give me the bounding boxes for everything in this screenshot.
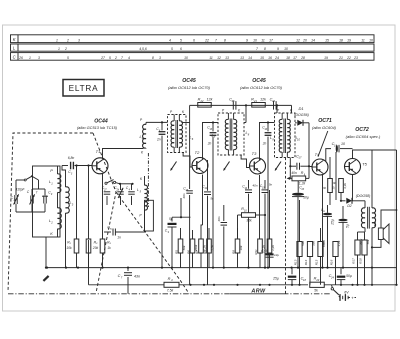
wire T1 collector: [103, 149, 144, 160]
wire D1 to T4 base: [309, 123, 312, 167]
svg-text:34: 34: [272, 99, 275, 103]
speaker: [378, 228, 383, 240]
svg-text:1,2k: 1,2k: [271, 245, 275, 251]
osc core dashed: [147, 153, 149, 207]
svg-text:19: 19: [347, 39, 351, 43]
trimmer C9left: [43, 196, 45, 204]
svg-text:5n: 5n: [269, 182, 273, 186]
svg-text:2n: 2n: [262, 142, 267, 146]
svg-text:13: 13: [209, 128, 212, 131]
svg-text:18: 18: [303, 278, 306, 282]
wire mid y205: [323, 204, 328, 206]
wire osc fb: [88, 240, 90, 285]
svg-text:2b: 2b: [115, 188, 119, 191]
cap C18 25u: [291, 268, 293, 275]
svg-text:5: 5: [140, 190, 142, 193]
svg-text:9: 9: [246, 39, 248, 43]
svg-text:P: P: [170, 110, 173, 114]
svg-text:2: 2: [66, 39, 69, 43]
svg-text:9: 9: [277, 47, 279, 51]
wire x336: [335, 152, 337, 200]
svg-text:4: 4: [129, 188, 131, 191]
svg-text:R16: R16: [329, 259, 333, 265]
svg-text:OC71: OC71: [318, 118, 332, 124]
svg-text:6: 6: [180, 47, 182, 51]
wire T5 emitter: [355, 174, 357, 201]
core adjust arrow 1: [171, 162, 177, 171]
svg-text:7,5k: 7,5k: [167, 289, 174, 293]
output bias resistors: [297, 242, 302, 257]
svg-text:5: 5: [171, 47, 173, 51]
ELTRA logo box: [63, 80, 104, 97]
svg-text:22: 22: [204, 39, 209, 43]
svg-text:OC72: OC72: [355, 127, 369, 133]
capacitor C13 2n: [212, 123, 214, 132]
svg-text:40n: 40n: [182, 193, 186, 198]
svg-text:11: 11: [209, 56, 213, 60]
svg-text:3: 3: [71, 172, 73, 175]
supply rail ARW right: [179, 284, 308, 286]
rail to switch: [324, 284, 396, 286]
svg-text:9: 9: [51, 193, 53, 196]
svg-text:9: 9: [168, 231, 170, 234]
svg-text:2: 2: [50, 220, 53, 224]
svg-text:T5: T5: [362, 162, 367, 167]
tuning gang dashed link: [116, 192, 189, 294]
svg-text:C: C: [13, 54, 17, 59]
svg-text:R18: R18: [358, 258, 362, 264]
wire T5 top right: [353, 150, 397, 159]
svg-text:35k: 35k: [246, 219, 252, 223]
svg-text:24: 24: [274, 56, 279, 60]
transistor T4: [312, 159, 328, 175]
capacitor C35: [232, 101, 234, 110]
svg-text:390k: 390k: [359, 238, 363, 245]
leader OC71: [318, 131, 328, 157]
svg-text:10: 10: [264, 128, 267, 131]
wire T2 emitter: [202, 175, 204, 226]
wire L1-L2 inner: [57, 166, 59, 174]
capacitor C14 40n: [245, 189, 252, 191]
resistor R16 2k2: [340, 158, 342, 171]
wire right edge down: [396, 150, 398, 285]
svg-text:6: 6: [192, 137, 194, 141]
svg-text:10: 10: [284, 47, 288, 51]
wire L3: [62, 166, 66, 188]
svg-text:10: 10: [253, 39, 257, 43]
svg-text:18: 18: [286, 56, 290, 60]
svg-text:10: 10: [184, 56, 188, 60]
svg-text:13: 13: [225, 56, 229, 60]
ground chassis: [43, 276, 48, 281]
svg-text:K: K: [141, 150, 144, 154]
svg-text:P: P: [140, 118, 143, 122]
tuning box: [33, 166, 61, 237]
cap C21 25u: [323, 213, 332, 216]
svg-text:K: K: [50, 232, 53, 236]
svg-text:12µ: 12µ: [274, 253, 279, 257]
capacitor C8 2n: [161, 122, 163, 130]
svg-text:4: 4: [171, 278, 173, 282]
svg-text:16: 16: [369, 39, 373, 43]
wire rail right drop: [291, 105, 293, 113]
svg-text:5: 5: [180, 39, 182, 43]
capacitor C34: [273, 101, 275, 110]
supply rail ARW: [89, 284, 165, 286]
wire T4 base res: [311, 166, 313, 169]
svg-text:P: P: [277, 109, 280, 113]
svg-text:4,5,6: 4,5,6: [139, 47, 147, 51]
cap C7 43n: [127, 268, 129, 271]
svg-text:28: 28: [300, 56, 305, 60]
band switch contact: [24, 179, 26, 181]
switch contact rows K L C: [11, 35, 375, 43]
ARW wire: [230, 293, 283, 295]
svg-text:R8: R8: [203, 250, 207, 254]
svg-text:P: P: [139, 214, 142, 218]
wire T5 collector: [352, 175, 354, 201]
svg-text:6: 6: [193, 39, 195, 43]
svg-text:R9: R9: [231, 250, 235, 254]
svg-text:7: 7: [121, 275, 123, 279]
svg-text:27: 27: [100, 56, 105, 60]
capacitor C16 40n: [189, 123, 191, 190]
svg-text:7: 7: [121, 56, 123, 60]
svg-text:R12: R12: [263, 249, 267, 255]
svg-text:R₂: R₂: [94, 241, 98, 245]
svg-text:23: 23: [315, 278, 319, 282]
wire T5 base: [344, 149, 347, 167]
svg-text:1k: 1k: [107, 246, 111, 250]
wire R17R18 tops: [357, 232, 359, 240]
osc coil box: [145, 200, 154, 231]
wire T4 collector: [326, 149, 331, 162]
svg-text:4: 4: [169, 39, 171, 43]
svg-text:410pF: 410pF: [15, 188, 25, 192]
svg-text:12: 12: [296, 39, 300, 43]
wire R5R6 tops: [180, 228, 182, 239]
svg-text:35: 35: [232, 99, 235, 103]
node base T1: [75, 164, 77, 166]
coil L3: [66, 187, 70, 213]
coil L4: [143, 124, 146, 148]
battery 6V: [339, 296, 340, 298]
svg-text:12: 12: [217, 56, 221, 60]
svg-text:6,8n: 6,8n: [68, 156, 75, 160]
svg-text:C: C: [27, 190, 30, 194]
svg-text:50µ: 50µ: [346, 274, 352, 278]
svg-text:16: 16: [268, 56, 272, 60]
svg-text:1,2k: 1,2k: [337, 240, 341, 246]
svg-text:1: 1: [58, 47, 60, 51]
svg-text:8: 8: [264, 47, 266, 51]
resistor R10b: [329, 157, 331, 179]
svg-text:56k: 56k: [373, 221, 377, 226]
svg-text:2n: 2n: [156, 138, 161, 142]
svg-text:27: 27: [103, 188, 107, 191]
svg-text:21: 21: [338, 56, 343, 60]
core adjust arrow 3: [275, 162, 281, 171]
antenna assembly dashed outline: [8, 133, 93, 292]
wire rail left drop: [189, 105, 191, 122]
coil L1: [58, 174, 61, 193]
svg-text:13: 13: [240, 56, 244, 60]
svg-text:6V: 6V: [344, 290, 349, 294]
osc top wire: [120, 183, 133, 185]
svg-text:23: 23: [353, 56, 358, 60]
svg-text:3: 3: [78, 39, 80, 43]
svg-text:K: K: [13, 37, 16, 42]
svg-text:P: P: [222, 109, 225, 113]
svg-text:17: 17: [299, 156, 302, 160]
svg-text:R6: R6: [186, 250, 190, 254]
svg-text:10: 10: [341, 142, 345, 146]
wires detector: [289, 158, 291, 179]
svg-text:T1: T1: [96, 149, 101, 154]
svg-text:12k: 12k: [207, 97, 213, 101]
svg-text:50k: 50k: [182, 245, 186, 250]
svg-text:(albo GC604): (albo GC604): [312, 125, 337, 130]
svg-text:8: 8: [248, 132, 250, 136]
svg-text:K: K: [182, 110, 185, 114]
svg-text:20: 20: [302, 39, 307, 43]
svg-text:5k: 5k: [314, 289, 318, 293]
capacitor C11 5n: [207, 160, 209, 191]
resistor R21 12k: [252, 103, 266, 108]
svg-text:23: 23: [300, 188, 304, 191]
svg-text:K: K: [290, 109, 293, 113]
band switch osc: [105, 182, 107, 184]
svg-text:7: 7: [256, 47, 258, 51]
svg-text:25µ: 25µ: [272, 277, 279, 281]
svg-text:R₁: R₁: [67, 241, 71, 245]
variable capacitor C2a: [14, 195, 16, 204]
svg-text:17: 17: [269, 39, 273, 43]
wire base drop: [88, 166, 90, 240]
IF transformer 2: [218, 113, 244, 155]
resistor R10 35k horizontal: [238, 214, 242, 216]
svg-text:T4: T4: [315, 152, 320, 157]
svg-text:26: 26: [18, 56, 23, 60]
svg-text:R₃: R₃: [107, 241, 111, 245]
svg-text:56k: 56k: [312, 241, 316, 246]
capacitor C3 6.8n: [62, 165, 68, 167]
wire IF1 K up: [181, 110, 190, 115]
svg-text:R11: R11: [254, 249, 258, 255]
svg-text:7: 7: [215, 39, 217, 43]
wire box bottom: [45, 237, 47, 268]
transistor T2: [192, 158, 208, 174]
svg-text:R14: R14: [304, 259, 308, 265]
power switch: [331, 288, 333, 290]
resistor R4 7k5: [164, 282, 179, 287]
svg-text:ELTRA: ELTRA: [69, 84, 99, 93]
capacitor C10 2n: [267, 123, 269, 132]
svg-text:10: 10: [244, 210, 247, 213]
svg-text:19: 19: [324, 56, 328, 60]
svg-text:R15: R15: [314, 259, 318, 265]
svg-text:3,3k: 3,3k: [343, 183, 347, 189]
node rail: [245, 104, 247, 106]
capacitor C12 40n: [223, 205, 225, 221]
svg-text:2a: 2a: [13, 197, 17, 201]
svg-text:P: P: [50, 169, 53, 173]
svg-text:T3: T3: [252, 151, 257, 156]
svg-text:(DOG58): (DOG58): [356, 194, 371, 198]
svg-text:20k: 20k: [92, 246, 99, 250]
svg-text:T2: T2: [195, 150, 200, 155]
svg-text:56k: 56k: [366, 239, 370, 244]
wire R11R12 tops: [259, 225, 261, 239]
chassis rail right part: [292, 267, 397, 269]
svg-text:8: 8: [224, 39, 226, 43]
coil L2: [58, 208, 62, 229]
wire emitter join: [172, 216, 191, 218]
svg-text:K: K: [140, 177, 143, 181]
svg-text:50µ: 50µ: [303, 196, 309, 200]
svg-text:2n: 2n: [207, 142, 212, 146]
resistor R23: [310, 282, 325, 287]
svg-text:R7: R7: [195, 250, 199, 254]
transistor T5: [345, 159, 361, 175]
svg-text:14: 14: [244, 187, 247, 190]
capacitor C15b 5n: [262, 189, 269, 191]
cap C9 5u: [171, 217, 173, 221]
svg-text:14: 14: [248, 56, 252, 60]
svg-text:2: 2: [64, 47, 67, 51]
svg-text:+: +: [351, 296, 354, 301]
svg-text:(albo OC612 lub OC70): (albo OC612 lub OC70): [240, 85, 283, 90]
svg-text:5: 5: [110, 228, 112, 231]
wire IF1 pri bottom: [161, 153, 170, 158]
svg-text:43n: 43n: [134, 275, 140, 279]
transistor T1: [92, 158, 108, 174]
svg-text:K: K: [238, 109, 241, 113]
cap C17: [290, 165, 296, 167]
svg-text:R13: R13: [293, 259, 297, 265]
resistor R9 horizontal: [292, 176, 306, 181]
svg-text:22: 22: [200, 99, 204, 103]
svg-text:18: 18: [339, 39, 343, 43]
wire R16: [340, 171, 342, 179]
cap C27: [106, 184, 108, 190]
svg-text:(albo GC604 spec.): (albo GC604 spec.): [346, 134, 381, 139]
wires tuning caps: [15, 180, 17, 195]
top rail: [190, 104, 292, 106]
svg-text:4: 4: [128, 56, 130, 60]
osc coil L5: [145, 185, 148, 210]
bias resistors row: [178, 239, 183, 253]
svg-text:OC45: OC45: [182, 78, 196, 84]
svg-text:1: 1: [51, 181, 53, 185]
svg-text:(albo OC612 lub OC70): (albo OC612 lub OC70): [168, 85, 211, 90]
svg-text:(albo GC513 lub TC15): (albo GC513 lub TC15): [77, 125, 118, 130]
svg-text:1,2k: 1,2k: [203, 245, 207, 251]
transistor T3: [250, 158, 266, 174]
wire R13 top: [299, 200, 301, 242]
svg-text:40n: 40n: [217, 216, 221, 221]
wire T3 collector: [260, 123, 275, 161]
svg-text:D1: D1: [298, 106, 303, 111]
svg-text:R5: R5: [174, 250, 178, 254]
cap C22 50u: [338, 219, 347, 222]
svg-text:OC45: OC45: [252, 78, 266, 84]
svg-text:5: 5: [109, 56, 111, 60]
svg-text:3: 3: [38, 56, 40, 60]
trim cap C4: [131, 184, 133, 190]
chassis rail: [47, 267, 292, 269]
svg-text:10k: 10k: [66, 246, 72, 250]
svg-text:T: T: [36, 191, 39, 195]
svg-text:40n: 40n: [252, 183, 257, 187]
svg-text:1: 1: [29, 56, 31, 60]
svg-text:22: 22: [346, 56, 351, 60]
wire R14 top: [309, 167, 311, 242]
wire IF1 sec to T2: [183, 153, 192, 168]
svg-text:OC44: OC44: [94, 119, 108, 125]
svg-text:3: 3: [72, 202, 74, 206]
svg-text:11: 11: [261, 39, 265, 43]
diode D2: [341, 200, 346, 202]
rail dots: [189, 284, 191, 286]
svg-text:9: 9: [272, 137, 274, 141]
svg-text:15: 15: [325, 39, 329, 43]
svg-text:5: 5: [67, 56, 69, 60]
svg-text:12k: 12k: [260, 97, 266, 101]
wire rail drop2: [245, 105, 247, 122]
wire L4 top to IF1: [146, 121, 168, 123]
resistors R1 R2 R3: [74, 239, 79, 253]
svg-text:24: 24: [330, 276, 334, 280]
svg-text:1,3k: 1,3k: [211, 245, 215, 251]
trimmer Ct: [30, 196, 32, 204]
svg-text:40n: 40n: [291, 171, 297, 175]
svg-text:8: 8: [152, 56, 154, 60]
wire IF2 sec to T3: [241, 155, 249, 168]
wire T4 emitter: [322, 175, 324, 268]
osc bottom wire: [107, 204, 146, 206]
svg-text:10: 10: [297, 137, 300, 141]
svg-text:21: 21: [253, 99, 257, 103]
svg-text:R: R: [323, 186, 327, 189]
IF transformer 1: [168, 115, 187, 153]
svg-text:(DOG56): (DOG56): [294, 113, 309, 117]
diode D1: [295, 122, 297, 124]
cap C17b 12u: [266, 253, 274, 255]
core adjust arrow 2: [224, 162, 230, 171]
svg-text:L: L: [13, 45, 16, 50]
svg-text:59k: 59k: [301, 241, 305, 246]
svg-text:6860: 6860: [322, 240, 326, 247]
svg-text:1n: 1n: [117, 236, 121, 240]
output transformer Tr: [364, 201, 366, 208]
wire T1 emitter: [102, 174, 104, 239]
var cap C2b: [120, 184, 122, 190]
svg-text:1: 1: [56, 39, 58, 43]
dashed detector boundary: [285, 158, 287, 294]
svg-text:R17: R17: [351, 258, 355, 264]
svg-text:2: 2: [114, 56, 117, 60]
cap C5 1n: [104, 231, 111, 233]
resistor R22 12k: [198, 103, 212, 108]
svg-text:11: 11: [361, 39, 365, 43]
IF transformer 3: [275, 113, 296, 158]
svg-text:D2: D2: [347, 204, 351, 208]
wire T2 collector: [203, 123, 219, 160]
wire R10 top: [237, 228, 239, 239]
svg-text:25µ: 25µ: [331, 219, 335, 226]
wire T3 emitter: [259, 175, 261, 239]
